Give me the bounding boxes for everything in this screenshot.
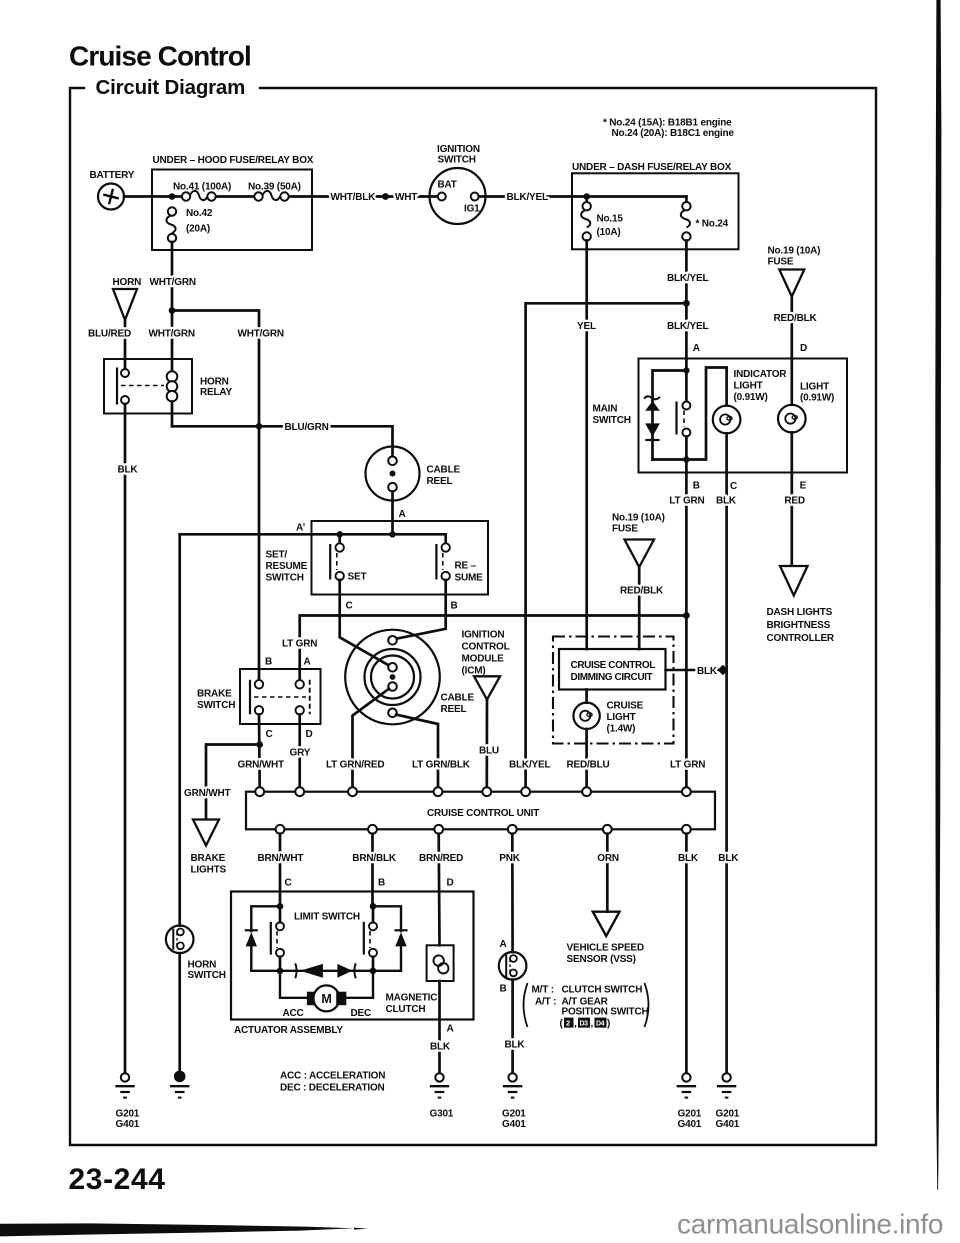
node fuse 15 tap	[583, 193, 590, 200]
svg-text:A: A	[447, 1024, 454, 1035]
cruise unit bottom terminals	[276, 825, 285, 834]
diode dec side	[373, 906, 401, 931]
svg-text:SWITCH: SWITCH	[266, 573, 304, 584]
svg-text:BLK: BLK	[697, 666, 718, 677]
brake switch contacts	[249, 680, 251, 715]
svg-text:CRUISE CONTROL UNIT: CRUISE CONTROL UNIT	[427, 808, 539, 819]
actuator assembly box	[231, 892, 474, 1020]
horn relay contact	[116, 368, 118, 405]
svg-text:SWITCH: SWITCH	[593, 415, 631, 426]
ground horn switch (filled)	[170, 1071, 189, 1098]
svg-text:carmanualsonline.info: carmanualsonline.info	[677, 1209, 943, 1240]
under-hood fuse/relay box	[152, 170, 312, 251]
svg-text:SUME: SUME	[455, 573, 484, 584]
svg-text:BLU/GRN: BLU/GRN	[285, 422, 329, 433]
wire A into main switch	[685, 359, 688, 402]
svg-text:MAIN: MAIN	[593, 404, 618, 415]
svg-text:HORN: HORN	[113, 277, 142, 288]
svg-text:G201: G201	[116, 1109, 140, 1120]
svg-text:No.15: No.15	[597, 214, 624, 225]
limit switch right contact	[363, 922, 365, 955]
main switch box	[639, 359, 848, 473]
svg-text:B: B	[378, 878, 385, 889]
wire BLU ICM to cruise unit	[485, 700, 488, 788]
wire BLK unit to ground	[685, 834, 688, 1073]
wire A' common line	[180, 534, 446, 543]
cruise light bulb	[585, 690, 588, 703]
cable reel (horn)	[366, 447, 420, 501]
svg-text:No.42: No.42	[186, 208, 213, 219]
wire LT GRN/RED cable reel to cruise unit	[353, 689, 390, 788]
svg-text:BLK/YEL: BLK/YEL	[667, 273, 708, 284]
svg-text:* No.24 (15A): B18B1 engine: * No.24 (15A): B18B1 engine	[603, 118, 732, 129]
wire RED main switch E to controller	[790, 473, 793, 566]
wire GRN/WHT A' down to horn switch	[178, 534, 181, 925]
vehicle speed sensor symbol	[593, 912, 620, 936]
wire BLK relay to ground	[124, 404, 127, 1073]
svg-text:BLK: BLK	[118, 465, 139, 476]
svg-text:C: C	[266, 729, 273, 740]
wire PNK unit to clutch switch	[511, 834, 514, 952]
svg-text:D3: D3	[580, 1020, 589, 1027]
svg-text:SWITCH: SWITCH	[188, 970, 226, 981]
node battery feed junction	[169, 193, 176, 200]
svg-text:CABLE: CABLE	[427, 465, 461, 476]
svg-text:G301: G301	[430, 1109, 454, 1120]
node actuator right bottom	[370, 968, 377, 975]
svg-text:CLUTCH: CLUTCH	[386, 1004, 426, 1015]
wire horn switch to ground	[178, 953, 181, 1071]
svg-text:BRAKE: BRAKE	[191, 853, 226, 864]
node main switch top junction	[683, 367, 689, 373]
svg-text:UNDER – DASH FUSE/RELAY BOX: UNDER – DASH FUSE/RELAY BOX	[572, 162, 732, 173]
wire BRN/BLK unit to actuator B	[371, 834, 374, 903]
svg-text:FUSE: FUSE	[612, 524, 638, 535]
svg-text:ACTUATOR ASSEMBLY: ACTUATOR ASSEMBLY	[234, 1025, 343, 1036]
svg-text:SENSOR (VSS): SENSOR (VSS)	[567, 954, 636, 965]
diode branch of main switch	[653, 371, 687, 460]
wire WHT/BLK to splice	[312, 195, 382, 198]
wire WHT to ignition switch	[389, 195, 438, 198]
svg-text:G201: G201	[716, 1109, 740, 1120]
frame around diagram	[70, 88, 876, 1145]
node BLK/YEL branch junction	[683, 300, 690, 307]
svg-text:CONTROL: CONTROL	[462, 642, 510, 653]
wire ORN unit to VSS	[606, 834, 609, 912]
svg-text:BLK: BLK	[678, 853, 699, 864]
wire LT GRN down to cruise unit	[685, 616, 688, 792]
horn relay box	[104, 359, 192, 414]
svg-text:WHT: WHT	[395, 192, 417, 203]
diode D1 (up) with wavy cathode bar	[644, 396, 660, 399]
wire C set to cable reel	[340, 580, 389, 665]
wire battery to under-hood box	[124, 195, 172, 198]
node actuator left bottom	[277, 968, 284, 975]
svg-text:SWITCH: SWITCH	[197, 700, 235, 711]
node main switch bottom junction	[683, 456, 689, 462]
brake lights symbol	[193, 820, 219, 846]
cruise control unit box	[246, 792, 715, 830]
wire BLK main switch C down to ground	[725, 473, 728, 1074]
svg-text:No.39 (50A): No.39 (50A)	[248, 182, 301, 193]
svg-text:INDICATOR: INDICATOR	[734, 369, 788, 380]
svg-text:A: A	[399, 509, 406, 520]
wire BRN/RED unit to magnetic clutch D	[437, 834, 440, 946]
svg-text:LIMIT SWITCH: LIMIT SWITCH	[294, 912, 360, 923]
svg-text:BLK: BLK	[505, 1040, 526, 1051]
svg-text:CONTROLLER: CONTROLLER	[767, 633, 835, 644]
resume contact	[435, 544, 437, 580]
wire GRY brake switch D to cruise unit	[298, 715, 301, 788]
svg-text:A: A	[304, 657, 311, 668]
svg-text:SET/: SET/	[266, 550, 288, 561]
svg-text:C: C	[285, 878, 292, 889]
svg-text:GRN/WHT: GRN/WHT	[238, 760, 284, 771]
wire BLK/YEL branch horizontal	[526, 303, 687, 791]
motor M	[280, 971, 307, 998]
svg-text:D: D	[800, 343, 807, 354]
svg-text:IG1: IG1	[464, 204, 480, 215]
svg-text:Cruise Control: Cruise Control	[69, 41, 251, 72]
svg-text:BLU/RED: BLU/RED	[88, 329, 131, 340]
splice dot	[382, 193, 389, 200]
wire bus inside under-hood box	[172, 195, 186, 198]
svg-text:HORN: HORN	[188, 960, 217, 971]
wire BRN/WHT unit to actuator C	[279, 834, 282, 903]
svg-text:D4: D4	[596, 1020, 605, 1027]
svg-text:G401: G401	[716, 1119, 740, 1130]
svg-text:BLK/YEL: BLK/YEL	[667, 321, 708, 332]
svg-text:(1.4W): (1.4W)	[607, 724, 636, 735]
svg-text:ACC: ACC	[283, 1008, 304, 1019]
svg-text:BLK: BLK	[430, 1042, 451, 1053]
svg-text:A: A	[693, 343, 700, 354]
svg-text:WHT/GRN: WHT/GRN	[150, 277, 196, 288]
fuse No.15 (10A)	[581, 210, 590, 228]
ignition switch	[430, 168, 486, 224]
wire RED/BLK fuse to dimming circuit	[638, 567, 641, 649]
svg-text:RED/BLK: RED/BLK	[620, 586, 664, 597]
svg-text:A’: A’	[296, 523, 305, 534]
svg-text:FUSE: FUSE	[768, 257, 794, 268]
svg-text:B: B	[693, 481, 700, 492]
horn relay coil	[167, 371, 178, 382]
svg-text:MODULE: MODULE	[462, 654, 505, 665]
svg-text:D: D	[447, 878, 454, 889]
svg-text:BRIGHTNESS: BRIGHTNESS	[767, 620, 831, 631]
svg-text:IGNITION: IGNITION	[437, 144, 480, 155]
main switch contact	[675, 402, 677, 435]
svg-text:LT GRN: LT GRN	[670, 760, 705, 771]
svg-text:B: B	[451, 601, 458, 612]
svg-text:G201: G201	[502, 1109, 526, 1120]
wire BLK dimming circuit to main switch C wire	[666, 669, 720, 671]
svg-text:VEHICLE SPEED: VEHICLE SPEED	[567, 943, 644, 954]
svg-text:CRUISE CONTROL: CRUISE CONTROL	[571, 660, 656, 671]
svg-text:CLUTCH SWITCH: CLUTCH SWITCH	[562, 985, 643, 996]
svg-text:GRY: GRY	[290, 748, 311, 759]
svg-text:B: B	[500, 984, 507, 995]
svg-text:CABLE: CABLE	[441, 693, 475, 704]
svg-text:D: D	[306, 729, 313, 740]
set/resume switch box	[312, 521, 489, 595]
svg-text:GRN/WHT: GRN/WHT	[184, 788, 230, 799]
set contact	[329, 544, 331, 580]
svg-text:UNDER – HOOD FUSE/RELAY BOX: UNDER – HOOD FUSE/RELAY BOX	[153, 155, 314, 166]
light bulb (dash lights feed)	[790, 359, 793, 405]
svg-text:RED/BLU: RED/BLU	[567, 760, 610, 771]
wire GRN/WHT to brake lights	[206, 745, 260, 820]
svg-text:G401: G401	[502, 1119, 526, 1130]
svg-text:RE –: RE –	[455, 561, 477, 572]
ground G201/G401 (clutch switch)	[503, 1073, 522, 1097]
cable reel (cruise)	[345, 630, 440, 725]
wire LT GRN main switch B down to bus	[685, 473, 688, 616]
node set top junction	[337, 531, 343, 537]
ground G201/G401 left (horn relay BLK)	[115, 1073, 134, 1097]
wire LT GRN/BLK cable reel to cruise unit	[396, 715, 438, 788]
svg-text:B: B	[265, 657, 272, 668]
svg-text:PNK: PNK	[499, 853, 520, 864]
svg-text:BLK: BLK	[718, 853, 739, 864]
svg-text:RED: RED	[784, 496, 805, 507]
svg-text:G201: G201	[678, 1109, 702, 1120]
svg-text:LT GRN/BLK: LT GRN/BLK	[412, 760, 471, 771]
horn switch	[166, 926, 194, 954]
scan artifact bottom bar	[0, 1223, 354, 1236]
svg-text:23-244: 23-244	[69, 1163, 166, 1196]
wire BLK clutch to ground G301	[438, 981, 441, 1073]
wire BLK/YEL from fuse No.24 down to main switch A	[685, 241, 688, 359]
wire A cable reel to set/resume switch	[391, 492, 394, 535]
svg-text:C: C	[346, 601, 353, 612]
svg-text:SWITCH: SWITCH	[438, 155, 476, 166]
svg-text:G401: G401	[678, 1119, 702, 1130]
svg-text:DEC : DECELERATION: DEC : DECELERATION	[280, 1083, 385, 1094]
svg-text:(0.91W): (0.91W)	[734, 392, 768, 403]
svg-text:BLK: BLK	[716, 496, 737, 507]
under-dash fuse/relay box	[572, 173, 739, 249]
battery symbol	[98, 184, 124, 210]
svg-text:): )	[607, 1019, 610, 1030]
svg-text:BAT: BAT	[438, 180, 457, 191]
svg-text:LT GRN: LT GRN	[282, 639, 317, 650]
cruise control dimming circuit box	[559, 649, 666, 690]
svg-text:No.41 (100A): No.41 (100A)	[173, 182, 231, 193]
middle diodes	[280, 970, 373, 972]
svg-text:ORN: ORN	[597, 853, 619, 864]
limit switch left contact	[270, 922, 272, 955]
svg-text:No.24 (20A): B18C1 engine: No.24 (20A): B18C1 engine	[612, 128, 735, 139]
svg-text:2: 2	[566, 1019, 570, 1028]
svg-text:No.19 (10A): No.19 (10A)	[612, 513, 665, 524]
fuse No.24	[681, 210, 690, 228]
svg-text:Circuit Diagram: Circuit Diagram	[96, 76, 246, 99]
svg-text:RELAY: RELAY	[200, 387, 233, 398]
wire BLK clutch switch to ground	[511, 980, 514, 1074]
svg-text:BRN/WHT: BRN/WHT	[258, 853, 304, 864]
svg-text:MAGNETIC: MAGNETIC	[386, 993, 438, 1004]
ground G301 (magnetic clutch)	[430, 1073, 449, 1097]
node brake lights tap	[256, 741, 263, 748]
svg-text:LT GRN: LT GRN	[669, 496, 704, 507]
svg-text:LIGHT: LIGHT	[734, 381, 763, 392]
fuse No.41 (100A)	[190, 191, 208, 200]
svg-text:,: ,	[574, 1019, 577, 1030]
node WHT/GRN branch junction	[169, 307, 176, 314]
svg-text:WHT/BLK: WHT/BLK	[331, 192, 377, 203]
diode D2 (down)	[645, 423, 660, 436]
ground G201/G401 (cruise unit BLK)	[677, 1073, 696, 1097]
fuse No.39 (50A)	[262, 191, 280, 200]
svg-text:CRUISE: CRUISE	[607, 701, 644, 712]
svg-text:M/T :: M/T :	[532, 985, 554, 996]
clutch switch note bracket	[524, 983, 528, 1027]
svg-text:BATTERY: BATTERY	[90, 170, 135, 181]
bus LT GRN horizontal to brake switch A	[300, 616, 687, 681]
svg-text:(20A): (20A)	[186, 224, 210, 235]
svg-text:BLK/YEL: BLK/YEL	[509, 760, 550, 771]
svg-text:* No.24: * No.24	[696, 219, 729, 230]
node bus junction	[683, 612, 690, 619]
svg-text:A: A	[500, 939, 507, 950]
dash lights brightness controller symbol	[780, 566, 808, 596]
node A junction	[389, 531, 395, 537]
diode acc side	[251, 906, 280, 931]
ICM connector symbol	[474, 676, 500, 699]
wire WHT/GRN from fuse No.42 down	[171, 242, 174, 371]
wire BLU/RED horn to relay	[124, 320, 127, 369]
scan artifact right edge	[935, 0, 941, 1190]
node limit switch left top	[277, 903, 284, 910]
svg-text:LIGHT: LIGHT	[800, 382, 829, 393]
svg-text:RED/BLK: RED/BLK	[774, 313, 818, 324]
wire WHT/GRN branch to brake switch B	[172, 311, 259, 681]
svg-text:BRN/BLK: BRN/BLK	[352, 853, 397, 864]
ground G201/G401 (main switch BLK)	[717, 1073, 736, 1097]
svg-text:LIGHTS: LIGHTS	[191, 865, 227, 876]
cruise unit top terminals	[255, 787, 264, 796]
svg-text:ACC : ACCELERATION: ACC : ACCELERATION	[280, 1071, 385, 1082]
brake switch box	[240, 669, 321, 724]
svg-text:SET: SET	[348, 572, 367, 583]
fuse No.42 (20A) vertical	[166, 215, 175, 233]
wire RED/BLK to main switch D	[790, 297, 793, 359]
wire IG1 BLK/YEL to under-dash box	[479, 195, 587, 198]
svg-text:DIMMING CIRCUIT: DIMMING CIRCUIT	[571, 672, 653, 683]
dimming circuit dash-dot boundary	[553, 637, 674, 744]
connector diamond	[718, 665, 729, 675]
svg-text:DASH LIGHTS: DASH LIGHTS	[767, 607, 833, 618]
svg-text:RESUME: RESUME	[266, 561, 308, 572]
indicator light bulb	[713, 406, 741, 434]
svg-text:BLU: BLU	[479, 746, 499, 757]
svg-text:A/T :: A/T :	[535, 997, 556, 1008]
svg-text:LT GRN/RED: LT GRN/RED	[326, 760, 384, 771]
svg-text:IGNITION: IGNITION	[462, 630, 505, 641]
svg-text:POSITION SWITCH: POSITION SWITCH	[562, 1007, 649, 1018]
node BLU/GRN junction	[256, 423, 263, 430]
svg-text:C: C	[730, 481, 737, 492]
svg-text:G401: G401	[116, 1119, 140, 1130]
magnetic clutch coil	[427, 945, 454, 981]
svg-text:LIGHT: LIGHT	[607, 712, 636, 723]
svg-text:(0.91W): (0.91W)	[800, 393, 834, 404]
svg-text:REEL: REEL	[427, 476, 453, 487]
node limit switch right top	[370, 903, 377, 910]
svg-text:No.19 (10A): No.19 (10A)	[768, 246, 821, 257]
svg-text:(ICM): (ICM)	[462, 666, 486, 677]
wire inside under-dash box	[587, 195, 686, 198]
svg-text:BRAKE: BRAKE	[197, 689, 232, 700]
svg-text:,: ,	[591, 1019, 594, 1030]
svg-text:HORN: HORN	[200, 377, 229, 388]
wire B resume to cable reel	[396, 580, 445, 639]
svg-text:M: M	[321, 992, 331, 1006]
svg-text:WHT/GRN: WHT/GRN	[149, 329, 195, 340]
wire BLU/GRN relay coil to cable reel	[172, 426, 393, 456]
wire GRN/WHT brake switch C to cruise unit	[258, 715, 261, 788]
svg-text:WHT/GRN: WHT/GRN	[238, 329, 284, 340]
svg-text:DEC: DEC	[351, 1008, 372, 1019]
svg-text:E: E	[800, 481, 807, 492]
svg-text:BLK/YEL: BLK/YEL	[507, 192, 548, 203]
svg-text:(10A): (10A)	[597, 227, 621, 238]
svg-text:YEL: YEL	[577, 321, 596, 332]
wire YEL from fuse No.15 down to dimming circuit	[585, 241, 588, 650]
svg-text:BRN/RED: BRN/RED	[419, 853, 463, 864]
svg-text:REEL: REEL	[441, 704, 467, 715]
